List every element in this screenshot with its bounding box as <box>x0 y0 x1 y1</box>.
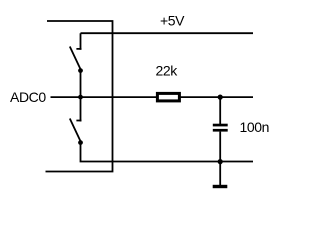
capacitor C1 top plate <box>213 124 228 127</box>
junction node capacitor / ground rail <box>218 159 223 164</box>
wire S2 pivot to ground rail <box>81 143 254 162</box>
svg-text:ADC0: ADC0 <box>10 89 46 105</box>
switch S1 fixed contact <box>76 33 81 50</box>
capacitor C1 bottom plate <box>213 129 228 132</box>
switch S2 arm <box>70 119 81 143</box>
switch S1 arm <box>70 47 81 71</box>
switch module bracket outline <box>46 21 113 172</box>
resistor R1 22k <box>157 93 179 101</box>
junction dot S1 pivot <box>78 68 83 73</box>
+5V rail wire <box>81 32 254 34</box>
wire S1 pivot to ADC0 node <box>80 71 82 98</box>
wire capacitor branch upper lead <box>219 97 221 124</box>
wire ADC0 net horizontal <box>51 96 254 98</box>
junction dot S2 pivot <box>78 140 83 145</box>
junction node resistor / capacitor <box>218 95 223 100</box>
junction node ADC0 / switch chain <box>78 95 83 100</box>
ground symbol <box>213 185 228 188</box>
switch S2 fixed contact <box>76 97 81 121</box>
svg-text:+5V: +5V <box>160 12 185 28</box>
wire capacitor lower lead <box>219 132 221 186</box>
svg-text:22k: 22k <box>156 63 179 79</box>
svg-text:100n: 100n <box>240 119 270 135</box>
